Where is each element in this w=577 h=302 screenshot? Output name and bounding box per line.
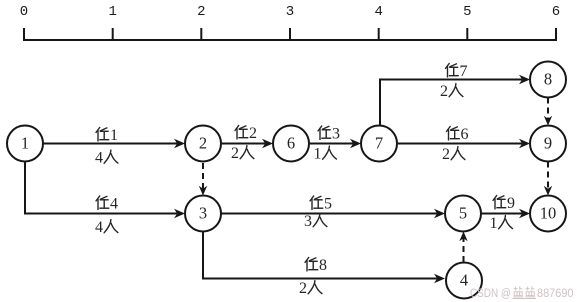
ruler tick 2	[200, 28, 202, 41]
label 任8	[305, 257, 327, 274]
svg-text:2: 2	[249, 125, 257, 142]
timeline ruler baseline	[23, 39, 557, 41]
wire task2: node2 to node6	[221, 139, 273, 149]
ruler tick 1	[112, 28, 114, 41]
label 任5	[310, 196, 332, 213]
wire task8: node3 down and right to node4	[203, 232, 445, 284]
label 任2	[235, 125, 257, 142]
wire task6: node7 to node9	[397, 139, 530, 149]
label 任4	[96, 196, 118, 213]
label 任7	[446, 63, 468, 80]
svg-text:9: 9	[544, 134, 552, 153]
svg-text:4: 4	[110, 196, 118, 213]
node 9	[530, 126, 566, 162]
svg-text:4: 4	[374, 4, 382, 20]
svg-text:9: 9	[507, 195, 515, 212]
ruler tick 5	[466, 28, 468, 41]
svg-text:7: 7	[460, 63, 468, 80]
svg-text:5: 5	[463, 4, 471, 20]
svg-text:3: 3	[304, 213, 312, 230]
wire task4: node1 down and right to node3	[25, 162, 185, 219]
svg-text:6: 6	[461, 126, 469, 143]
svg-text:2: 2	[231, 145, 239, 162]
svg-text:6: 6	[552, 4, 560, 20]
svg-text:1: 1	[21, 134, 29, 153]
label 2人	[231, 145, 254, 162]
node 2	[185, 126, 221, 162]
label 任6	[447, 126, 469, 143]
node 1	[7, 126, 43, 162]
svg-text:2: 2	[299, 280, 307, 297]
svg-text:5: 5	[459, 204, 467, 223]
wire task5: node3 to node5	[221, 209, 445, 219]
svg-text:4: 4	[95, 219, 103, 236]
label 4人 (task4)	[95, 219, 118, 236]
svg-text:3: 3	[199, 204, 207, 223]
ruler tick 3	[289, 28, 291, 41]
label 任1	[96, 127, 118, 144]
label 任3	[318, 126, 340, 143]
ruler tick 0	[23, 28, 25, 41]
dashed wire node4 to node5	[459, 232, 467, 263]
node 8	[530, 62, 566, 98]
svg-text:8: 8	[544, 70, 552, 89]
label 2人 (task6)	[442, 146, 465, 163]
label 任9	[493, 195, 515, 212]
wire task1: node1 to node2	[43, 139, 185, 149]
node 4	[446, 263, 482, 299]
dashed wire node2 to node3	[199, 163, 207, 196]
svg-text:3: 3	[286, 4, 294, 20]
node 6	[273, 126, 309, 162]
label 3人	[304, 213, 327, 230]
svg-text:5: 5	[324, 196, 332, 213]
node 5	[445, 196, 481, 232]
svg-text:7: 7	[375, 134, 383, 153]
svg-text:4: 4	[95, 150, 103, 167]
svg-text:2: 2	[442, 146, 450, 163]
ruler tick 6	[555, 28, 557, 41]
svg-text:887690: 887690	[537, 286, 574, 300]
svg-text:2: 2	[197, 4, 205, 20]
svg-text:1: 1	[108, 4, 116, 20]
svg-text:3: 3	[332, 126, 340, 143]
wire task3: node6 to node7	[309, 139, 361, 149]
svg-text:0: 0	[20, 4, 28, 20]
label 1人 (task9)	[490, 215, 513, 232]
wire task9: node5 to node10	[481, 209, 530, 219]
node 10	[530, 196, 566, 232]
label 2人 (task7)	[440, 83, 463, 100]
svg-text:CSDN @: CSDN @	[470, 286, 511, 300]
node 7	[361, 126, 397, 162]
svg-text:1: 1	[314, 146, 322, 163]
svg-text:2: 2	[199, 134, 207, 153]
ruler tick 4	[378, 28, 380, 41]
label 1人	[314, 146, 337, 163]
svg-text:6: 6	[287, 134, 295, 153]
svg-text:4: 4	[460, 271, 468, 290]
node 3	[185, 196, 221, 232]
svg-text:10: 10	[540, 204, 557, 223]
svg-text:8: 8	[319, 257, 327, 274]
dashed wire node9 to node10	[544, 162, 552, 196]
svg-text:1: 1	[490, 215, 498, 232]
dashed wire node8 to node9	[544, 98, 552, 126]
wire task7: node7 up and right to node8	[380, 75, 530, 126]
svg-text:2: 2	[440, 83, 448, 100]
watermark CSDN @盐盐887690	[470, 286, 574, 300]
label 2人 (task8)	[299, 280, 322, 297]
label 4人	[95, 150, 118, 167]
svg-text:1: 1	[110, 127, 118, 144]
